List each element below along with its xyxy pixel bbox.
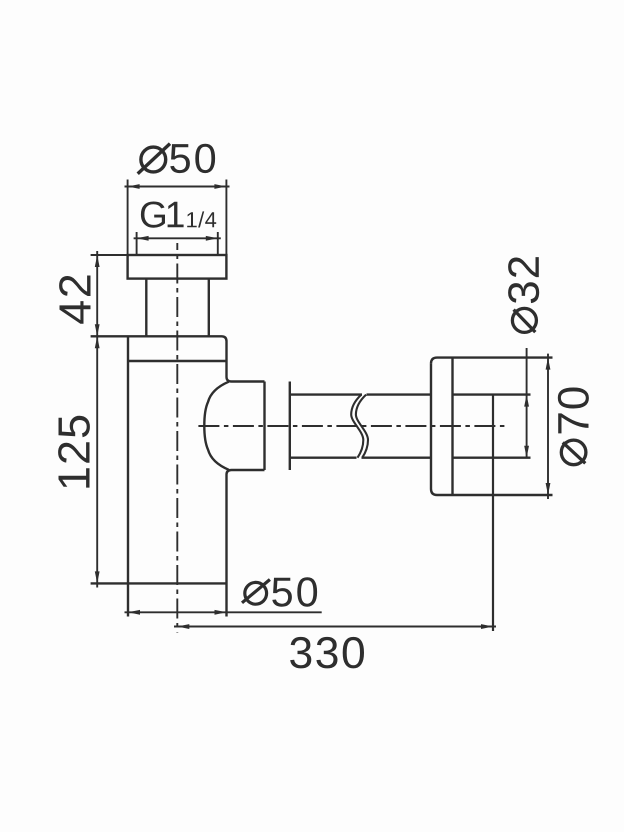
trap body right wall lower segment (extends below as extension line) — [225, 475, 227, 617]
dimension Ø32: dimension line — [526, 348, 528, 458]
arrow G1 right — [206, 236, 218, 241]
arrow Ø32 top — [524, 395, 529, 407]
dimension G1 1/4: dimension line — [134, 237, 221, 239]
pipe top line right of break — [367, 393, 432, 395]
dimension 330: dimension line — [174, 626, 496, 628]
arrow 330 left — [177, 624, 189, 629]
arrow 42 down — [95, 324, 100, 336]
label G1 1/4 — [141, 202, 216, 228]
arrow Ø50-top left — [128, 184, 140, 189]
label Ø50 top — [138, 144, 215, 174]
elbow bottom fillet — [227, 470, 232, 475]
trap body bottom line with left extension — [91, 582, 227, 584]
dimension Ø70: dimension line — [547, 354, 549, 499]
elbow dome arc — [204, 382, 229, 470]
trap body outline — [91, 336, 227, 377]
wall flange lip line — [451, 358, 453, 495]
dimension Ø50 top: right extension line — [225, 180, 227, 256]
pipe break S-curve left — [351, 395, 363, 458]
pipe end line, extends down as 330 extension line — [492, 395, 494, 631]
dimension Ø50 top: left extension line — [127, 180, 129, 256]
pipe bottom line left of break — [290, 457, 357, 459]
arrow Ø50-bottom right — [215, 610, 227, 615]
dimension Ø50 bottom: dimension line and leader under text — [125, 611, 322, 613]
arrow G1 left — [137, 236, 149, 241]
pipe break S-curve right — [356, 395, 368, 458]
neck (G1 1/4 threaded inlet) left wall — [145, 279, 147, 337]
arrow 42 up — [95, 255, 100, 267]
wall flange bottom edge with Ø70 extension — [431, 489, 553, 495]
label Ø50 bottom — [242, 577, 317, 606]
horizontal centerline of pipe — [198, 425, 507, 427]
arrow Ø70 top — [546, 358, 551, 370]
label Ø70 (rotated) — [558, 388, 589, 465]
arrow Ø50-bottom left — [128, 610, 140, 615]
elbow bottom edge — [232, 469, 265, 471]
wall flange left edge — [430, 364, 432, 489]
vertical centerline of trap — [176, 243, 178, 633]
dimension Ø50 top: dimension line — [125, 186, 230, 188]
wall flange top edge with Ø70 extension — [431, 358, 553, 364]
label 330 — [290, 637, 364, 669]
nut right face — [289, 382, 291, 471]
nut left face — [263, 382, 265, 471]
dimension G1 1/4: left extension line — [136, 232, 138, 255]
elbow top fillet — [227, 377, 232, 382]
elbow top edge — [232, 380, 265, 382]
pipe bottom line inside flange (Ø32 extension) — [453, 457, 531, 459]
dimension 42: top extension line (flange top, extended left) — [91, 254, 128, 256]
pipe bottom line right of break — [362, 457, 432, 459]
arrow 330 right — [481, 624, 493, 629]
pipe top line inside flange (Ø32 extension) — [453, 393, 531, 395]
neck right wall — [208, 279, 210, 337]
arrow 125 down — [95, 571, 100, 583]
label 125 (rotated) — [58, 416, 90, 488]
top flange (Ø50 slip nut) — [128, 255, 227, 279]
dimension G1 1/4: right extension line — [217, 232, 219, 255]
trap body left wall (extends below as extension line) — [127, 336, 129, 616]
arrow Ø50-top right — [214, 184, 226, 189]
dimension 42/125: shared vertical dimension line — [96, 251, 98, 588]
label Ø32 (rotated) — [508, 257, 539, 332]
label 42 (rotated) — [59, 276, 90, 324]
pipe top line left of break — [290, 393, 362, 395]
arrow Ø32 bottom — [524, 446, 529, 458]
arrow 125 up — [95, 336, 100, 348]
arrow Ø70 bottom — [546, 483, 551, 495]
body top ring line — [128, 360, 227, 362]
